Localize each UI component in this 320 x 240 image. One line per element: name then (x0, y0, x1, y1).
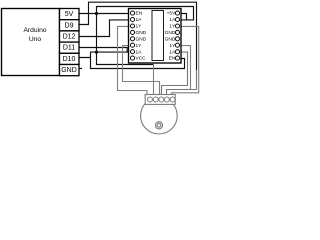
wire 5V upper branch to +5V right pin (97, 7, 194, 20)
svg-text:1Y: 1Y (136, 43, 143, 49)
node junction dot on 2A row wire (95, 51, 98, 54)
svg-text:D9: D9 (65, 22, 74, 29)
wire D11 to IC pin6 row (79, 48, 131, 52)
wire 1A right output loop down to motor terminal 4 (162, 52, 188, 95)
svg-text:1A: 1A (136, 17, 143, 23)
svg-text:1A: 1A (169, 49, 176, 55)
IC right pin labels (165, 11, 176, 62)
wire D9 tail into motor terminal 5 (167, 90, 197, 96)
pin 3 1Y (130, 24, 134, 28)
wire 1Y left output down to motor terminal 1 (118, 26, 148, 95)
Arduino pin box D10 (60, 53, 80, 64)
svg-text:1A: 1A (136, 49, 143, 55)
pin 13 GND (175, 30, 179, 34)
svg-text:1Y: 1Y (169, 24, 176, 30)
svg-text:1A: 1A (169, 17, 176, 23)
pin 6 1Y (130, 43, 134, 47)
pin 11 1Y (175, 43, 179, 47)
svg-text:GND: GND (61, 67, 77, 74)
pin 4 GND (130, 30, 134, 34)
wire stub GND pin (79, 68, 82, 70)
pin 16 +5V (175, 11, 179, 15)
wire D9 net outer loop: D9 pin up over the top and down the right side (79, 2, 197, 89)
pin 8 VCC (130, 56, 134, 60)
motor terminal block (145, 95, 175, 105)
Arduino pin box GND (60, 65, 80, 76)
svg-text:EN: EN (136, 11, 143, 17)
wire D12 to IC pin2 1A (79, 20, 131, 37)
wire 2Y right output down joining lower rail (180, 46, 191, 90)
IC left pin circles (130, 11, 134, 60)
motor shaft (155, 122, 162, 129)
svg-text:GND: GND (165, 36, 176, 42)
pin 7 1A (130, 50, 134, 54)
wire motor common: gray drop from y64 rail to terminal 2 (153, 65, 155, 96)
svg-text:1Y: 1Y (169, 43, 176, 49)
IC central body bar (152, 11, 164, 61)
pin 2 1A (130, 17, 134, 21)
motor driver IC body U1 (129, 9, 182, 64)
svg-text:D10: D10 (63, 56, 76, 63)
node junction dot on 5V wire (95, 12, 98, 15)
pin 5 GND (130, 37, 134, 41)
svg-text:D11: D11 (63, 45, 75, 52)
svg-text:1Y: 1Y (136, 24, 143, 30)
svg-text:Uno: Uno (29, 36, 42, 43)
pin 10 1A (175, 50, 179, 54)
wire 5V vertical branch down to y64 rail (97, 14, 154, 65)
svg-text:VCC: VCC (136, 56, 147, 62)
stepper motor body (141, 97, 178, 134)
wire 2Y left output down to motor terminal 3 (123, 46, 160, 96)
Arduino Uno body (2, 9, 60, 76)
svg-text:+5V: +5V (167, 11, 176, 17)
svg-text:GND: GND (165, 30, 176, 36)
wire D10 branch down under IC to EN right pin (91, 58, 185, 69)
pin 14 1Y (175, 24, 179, 28)
wire D10 step up to IC pin7 row (79, 52, 131, 57)
wire 5V to IC pin1 EN (79, 13, 131, 15)
Arduino pin box D9 (60, 20, 80, 31)
wire 1Y right output joining right-side vertical (172, 26, 199, 95)
Arduino pin box 5V (60, 9, 80, 20)
svg-text:GND: GND (136, 36, 147, 42)
motor terminal circles (148, 97, 176, 102)
IC right pin circles (175, 11, 179, 60)
pin 1 EN (130, 11, 134, 15)
IC left pin labels (136, 11, 147, 62)
svg-text:GND: GND (136, 30, 147, 36)
pin 12 GND (175, 37, 179, 41)
Arduino pin box D11 (60, 42, 80, 53)
svg-text:EN: EN (169, 56, 176, 62)
svg-text:5V: 5V (65, 11, 74, 18)
svg-text:D12: D12 (63, 34, 76, 41)
Arduino pin box D12 (60, 31, 80, 42)
pin 15 1A (175, 17, 179, 21)
svg-text:Arduino: Arduino (23, 27, 46, 34)
pin 9 EN (175, 56, 179, 60)
